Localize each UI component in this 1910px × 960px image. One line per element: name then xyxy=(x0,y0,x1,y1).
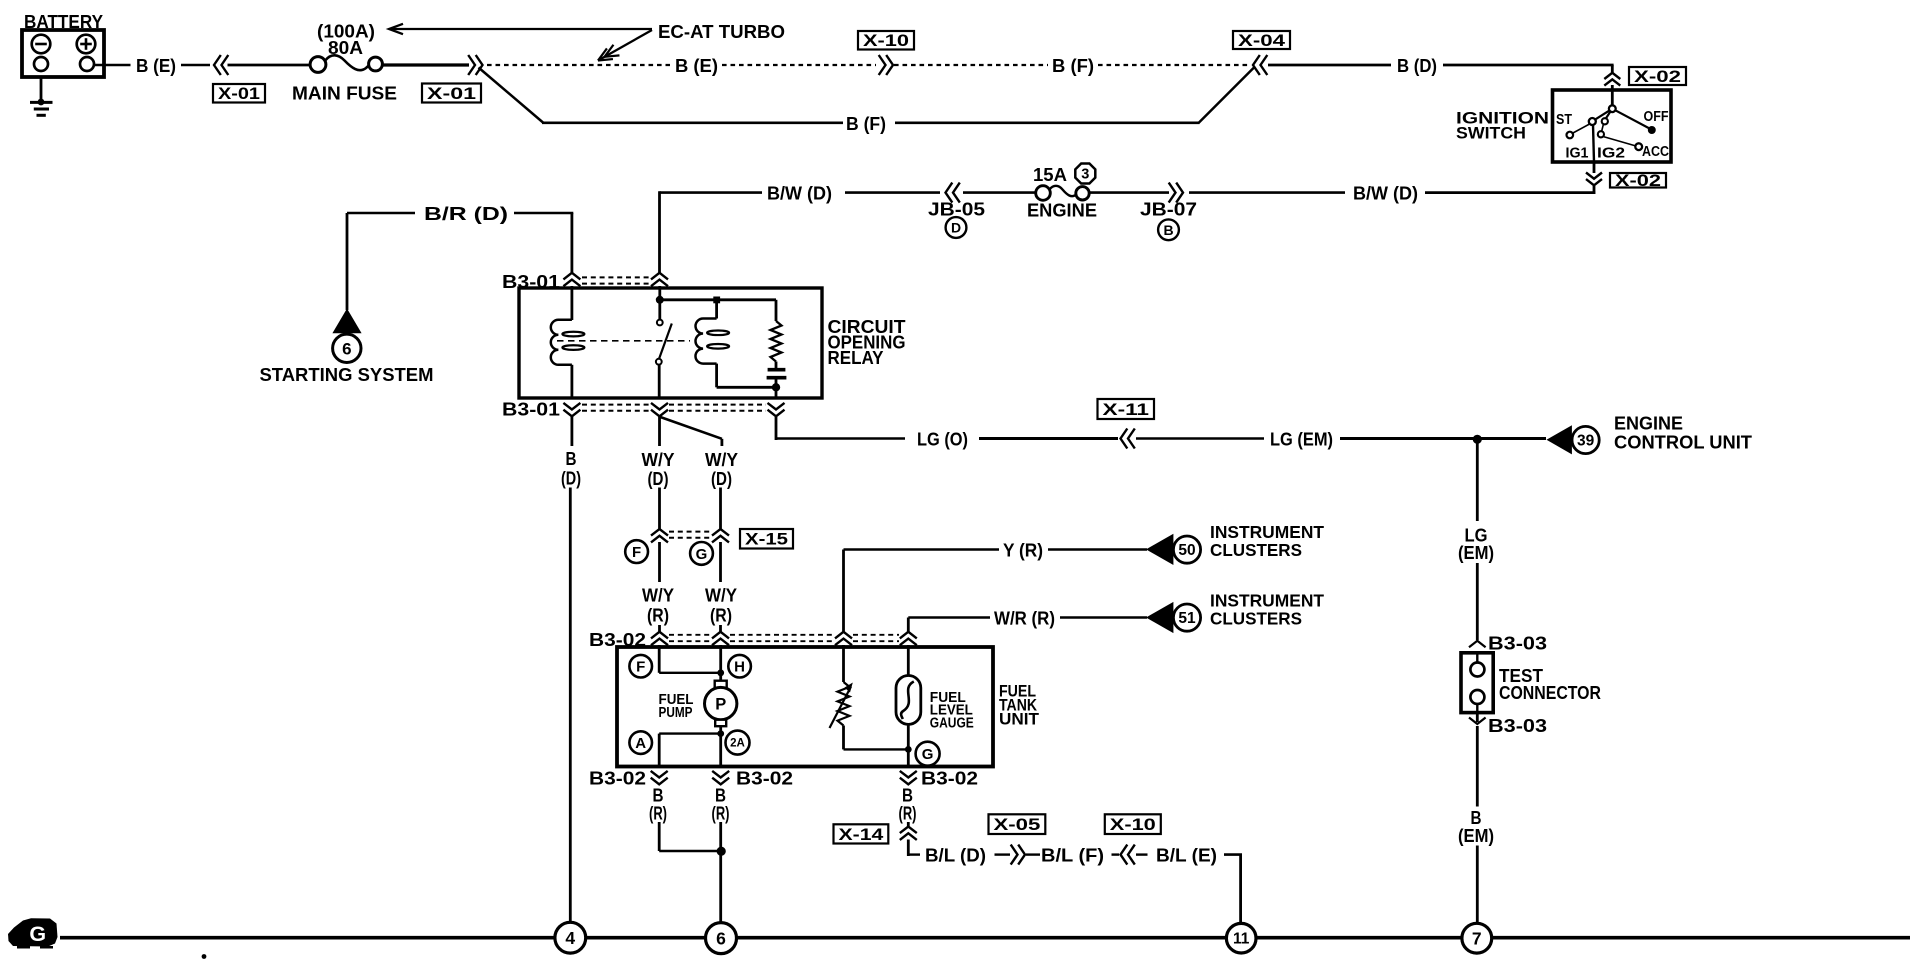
svg-text:IG1: IG1 xyxy=(1566,146,1589,162)
svg-text:X-11: X-11 xyxy=(1103,401,1150,419)
ground circle 6 xyxy=(706,923,737,954)
svg-text:W/Y: W/Y xyxy=(705,450,738,470)
test connector xyxy=(1461,653,1493,713)
svg-text:B/W (D): B/W (D) xyxy=(767,183,832,204)
svg-text:B: B xyxy=(902,786,913,806)
dashed wire B (F) xyxy=(894,55,1250,76)
dashed wire B (E) after X-01 xyxy=(487,55,876,76)
svg-text:6: 6 xyxy=(342,339,351,358)
wire W/Y (R) left xyxy=(642,542,674,633)
wire B (D) to ignition switch xyxy=(1268,55,1614,76)
svg-text:ENGINE: ENGINE xyxy=(1614,413,1683,434)
wire B/L (D) xyxy=(908,845,986,866)
junction JB-07 chevrons xyxy=(1176,183,1183,203)
svg-text:B/L (F): B/L (F) xyxy=(1041,845,1104,866)
svg-text:MAIN FUSE: MAIN FUSE xyxy=(292,83,397,104)
svg-text:EC-AT TURBO: EC-AT TURBO xyxy=(658,21,785,42)
svg-text:LG (EM): LG (EM) xyxy=(1270,429,1333,450)
svg-text:(R): (R) xyxy=(647,606,669,626)
svg-text:PUMP: PUMP xyxy=(659,705,693,721)
junction dot B (R) xyxy=(717,847,726,856)
pin H of fuel pump (circled) xyxy=(728,655,751,678)
svg-text:2A: 2A xyxy=(730,738,745,750)
wire B (E) battery to X-01 xyxy=(94,55,210,76)
ground circle 4 xyxy=(555,922,586,953)
svg-text:D: D xyxy=(951,219,961,235)
wire B (D) relay to ground circle 4 xyxy=(561,417,581,924)
svg-text:W/R (R): W/R (R) xyxy=(994,608,1055,629)
svg-text:B3-02: B3-02 xyxy=(921,768,978,789)
svg-text:11: 11 xyxy=(1233,931,1250,948)
arrow 50 instrument clusters xyxy=(1146,534,1173,565)
wire pump bottom to pin A xyxy=(659,734,721,768)
svg-text:W/Y: W/Y xyxy=(705,586,737,606)
svg-text:OFF: OFF xyxy=(1644,109,1669,125)
junction dot at pin G xyxy=(905,746,912,753)
label TEST CONNECTOR xyxy=(1499,666,1601,703)
svg-text:(EM): (EM) xyxy=(1458,825,1494,846)
relay internal top wire xyxy=(660,286,776,320)
pin F (circled) xyxy=(625,540,648,563)
svg-text:STARTING SYSTEM: STARTING SYSTEM xyxy=(260,364,434,385)
main fuse 80A xyxy=(310,55,382,72)
pin A of fuel pump (circled) xyxy=(629,731,652,754)
svg-text:Y (R): Y (R) xyxy=(1003,540,1043,561)
wire pin F to pump top xyxy=(659,645,721,673)
connector B3-03 (top) chevron xyxy=(1469,641,1486,648)
junction JB-05 chevrons xyxy=(946,183,953,203)
svg-text:LG (O): LG (O) xyxy=(917,429,968,450)
connector X-01 label box (right) xyxy=(422,84,481,103)
svg-text:B (E): B (E) xyxy=(675,55,718,76)
junction dot LG (EM) xyxy=(1473,435,1482,444)
svg-text:CLUSTERS: CLUSTERS xyxy=(1210,609,1302,629)
svg-text:BATTERY: BATTERY xyxy=(24,11,104,32)
svg-text:X-10: X-10 xyxy=(1110,816,1156,834)
callout arrow to dashed B (E) wire xyxy=(598,30,652,61)
svg-text:B/L (D): B/L (D) xyxy=(925,845,986,866)
arrow 51 instrument clusters xyxy=(1146,602,1173,633)
label ENGINE CONTROL UNIT xyxy=(1614,413,1753,453)
svg-text:F: F xyxy=(636,659,645,676)
wire B (R) right / B/L row xyxy=(899,786,917,827)
pin G (circled) xyxy=(690,542,713,565)
connector X-15 chevrons xyxy=(651,529,729,542)
wire B/R (D) to starting system xyxy=(347,203,573,310)
relay resistor xyxy=(767,300,787,386)
svg-text:7: 7 xyxy=(1472,928,1482,948)
svg-text:X-01: X-01 xyxy=(218,85,260,103)
svg-text:(R): (R) xyxy=(649,804,667,824)
svg-text:80A: 80A xyxy=(328,37,363,58)
junction dot resistor/coil2 bottom xyxy=(772,383,780,391)
svg-text:B: B xyxy=(715,786,726,806)
svg-text:P: P xyxy=(715,696,726,714)
pin D of JB-05 (circled) xyxy=(946,217,967,238)
ground circle 7 xyxy=(1462,923,1492,953)
label CIRCUIT OPENING RELAY xyxy=(828,317,906,368)
wire W/Y (D) relay switch down xyxy=(642,417,675,529)
connector X-05 arrow xyxy=(995,845,1041,865)
circled 51 xyxy=(1173,604,1200,631)
svg-text:X-05: X-05 xyxy=(994,816,1041,834)
svg-text:B: B xyxy=(1163,222,1173,238)
relay coil 2 xyxy=(696,303,777,387)
callout arrow to (100A) for EC-AT TURBO xyxy=(389,24,652,34)
circled 39 xyxy=(1572,426,1599,453)
junction square at relay coil 2 feed xyxy=(713,297,720,304)
wire into ignition switch xyxy=(1611,85,1614,92)
connector X-14 label box xyxy=(834,824,889,843)
connector B3-02 (top) chevrons xyxy=(651,632,917,645)
svg-text:JB-07: JB-07 xyxy=(1140,199,1197,220)
label FUEL LEVEL GAUGE xyxy=(930,690,974,732)
connector X-11 chevrons xyxy=(1121,429,1128,449)
svg-text:B/L (E): B/L (E) xyxy=(1156,845,1217,866)
pin B of JB-07 (circled) xyxy=(1158,219,1179,240)
junction dot pump top xyxy=(717,669,724,676)
connector X-02 label box (bottom) xyxy=(1610,173,1666,188)
connector X-05 label box xyxy=(989,814,1046,834)
svg-text:ACC: ACC xyxy=(1642,144,1669,160)
connector X-02 chevrons (bottom) xyxy=(1586,162,1602,194)
svg-text:G: G xyxy=(922,746,934,763)
pin G of fuel gauge (circled) xyxy=(916,742,940,766)
svg-text:B (D): B (D) xyxy=(1397,55,1437,76)
svg-text:B3-02: B3-02 xyxy=(736,768,793,789)
circled 6 starting system xyxy=(333,334,361,362)
svg-text:CONNECTOR: CONNECTOR xyxy=(1499,683,1601,703)
connector X-01 label box (left) xyxy=(213,84,265,103)
wire B/W (D) JB-05 to circuit opening relay xyxy=(660,183,941,274)
relay switch contacts xyxy=(656,320,672,399)
wire LG (EM) down from junction xyxy=(1458,441,1494,640)
svg-text:50: 50 xyxy=(1178,542,1195,559)
svg-text:(D): (D) xyxy=(561,469,581,489)
svg-text:GAUGE: GAUGE xyxy=(930,716,974,732)
svg-text:B/R (D): B/R (D) xyxy=(424,203,508,224)
wire LG (O) relay to X-11 xyxy=(776,417,1118,450)
connector X-10 label box (lower) xyxy=(1105,814,1161,834)
svg-text:X-15: X-15 xyxy=(745,531,788,549)
svg-text:(R): (R) xyxy=(899,804,917,824)
ground symbol G (car body) xyxy=(8,918,58,948)
svg-text:ST: ST xyxy=(1556,112,1572,128)
pin F of fuel pump (circled) xyxy=(629,655,652,678)
fuse number 3 (octagon) xyxy=(1075,164,1095,184)
connector B3-03 (bottom) chevron xyxy=(1469,713,1486,724)
svg-text:B: B xyxy=(566,449,577,469)
circuit opening relay box xyxy=(519,288,822,398)
relay mechanical link (dashed) xyxy=(557,340,690,342)
svg-text:INSTRUMENT: INSTRUMENT xyxy=(1210,522,1324,542)
circled 50 xyxy=(1173,536,1200,563)
svg-text:CONTROL UNIT: CONTROL UNIT xyxy=(1614,432,1753,453)
svg-text:B3-02: B3-02 xyxy=(589,768,646,789)
wire W/Y (D) branch diagonal xyxy=(660,417,738,529)
connector X-02 chevrons (top) xyxy=(1604,73,1620,79)
connector B3-02 (bottom) labels and chevrons xyxy=(589,768,978,789)
svg-text:B (E): B (E) xyxy=(136,55,176,76)
connector B3-01 (top) chevrons xyxy=(563,273,668,286)
svg-text:39: 39 xyxy=(1577,433,1595,450)
ignition switch xyxy=(1456,90,1671,162)
fuel pump motor xyxy=(705,673,737,734)
connector X-01 chevrons (left) xyxy=(214,55,221,75)
svg-text:SWITCH: SWITCH xyxy=(1456,124,1526,143)
connector X-01 chevrons (right) xyxy=(476,55,483,75)
svg-text:X-01: X-01 xyxy=(427,85,476,103)
svg-text:B3-03: B3-03 xyxy=(1488,633,1547,654)
connector X-04 chevrons xyxy=(1253,55,1260,75)
connector X-04 label box xyxy=(1233,31,1290,49)
wire engine fuse to JB-05 xyxy=(963,191,1037,194)
svg-text:6: 6 xyxy=(716,928,726,948)
svg-text:15A: 15A xyxy=(1033,164,1067,185)
wire B (F) lower run xyxy=(542,68,1254,135)
svg-text:B (F): B (F) xyxy=(846,113,886,134)
connector X-10 chevrons xyxy=(886,55,893,75)
svg-text:ENGINE: ENGINE xyxy=(1027,200,1097,221)
svg-text:G: G xyxy=(29,922,46,946)
ground circle 11 xyxy=(1226,923,1256,953)
svg-text:UNIT: UNIT xyxy=(999,710,1040,729)
svg-text:B3-03: B3-03 xyxy=(1488,715,1547,736)
connector X-10 label box xyxy=(858,31,914,50)
fuel level gauge rheostat xyxy=(830,645,909,749)
svg-text:B/W (D): B/W (D) xyxy=(1353,183,1418,204)
fuel level gauge element xyxy=(896,645,921,768)
ground below battery xyxy=(30,77,53,115)
ground bus wire xyxy=(60,936,1910,940)
junction dot pump bottom xyxy=(717,730,724,737)
wire main fuse to X-01 right xyxy=(382,63,469,66)
svg-text:A: A xyxy=(635,735,646,752)
svg-text:B: B xyxy=(653,786,664,806)
svg-text:B (F): B (F) xyxy=(1052,55,1094,76)
pin 2A of fuel pump (circled) xyxy=(726,731,750,755)
wire B/L (E) to ground circle 11 xyxy=(1156,845,1242,925)
wire resistor junction down xyxy=(775,389,778,399)
svg-text:4: 4 xyxy=(565,928,575,948)
svg-text:F: F xyxy=(632,544,641,561)
wire B (F) from X-01 down-slope xyxy=(479,68,544,123)
label FUEL TANK UNIT xyxy=(999,682,1040,729)
connector B3-01 (bottom) chevrons xyxy=(563,403,784,416)
stray mark xyxy=(202,954,207,959)
fuel tank unit box xyxy=(617,647,993,767)
connector X-11 label box xyxy=(1098,399,1155,419)
connector X-10 arrow (lower) xyxy=(1112,845,1148,865)
svg-text:CLUSTERS: CLUSTERS xyxy=(1210,540,1302,560)
svg-text:(D): (D) xyxy=(648,469,669,489)
svg-text:51: 51 xyxy=(1178,610,1196,627)
wire Y (R) to instrument cluster 50 xyxy=(844,540,1148,633)
svg-text:(R): (R) xyxy=(712,804,730,824)
wire X-01 to main fuse xyxy=(228,64,312,67)
svg-text:(R): (R) xyxy=(710,606,732,626)
wire B (EM) to ground circle 7 xyxy=(1458,726,1494,924)
svg-text:G: G xyxy=(696,546,708,563)
svg-text:(EM): (EM) xyxy=(1458,542,1494,563)
svg-text:X-02: X-02 xyxy=(1634,68,1681,86)
svg-text:W/Y: W/Y xyxy=(642,586,674,606)
connector X-15 label box xyxy=(740,529,793,549)
svg-text:X-14: X-14 xyxy=(839,826,885,844)
wire B/W (D) ignition switch to engine fuse xyxy=(1189,183,1595,204)
svg-text:INSTRUMENT: INSTRUMENT xyxy=(1210,591,1324,611)
label FUEL PUMP xyxy=(659,692,694,721)
label INSTRUMENT CLUSTERS (50) xyxy=(1210,522,1324,560)
wire W/R (R) to instrument cluster 51 xyxy=(908,608,1147,633)
connector X-02 label box (top) xyxy=(1629,67,1686,85)
svg-text:IG2: IG2 xyxy=(1597,146,1625,162)
svg-text:H: H xyxy=(734,659,745,676)
svg-text:3: 3 xyxy=(1081,167,1089,183)
svg-text:X-02: X-02 xyxy=(1615,172,1661,190)
svg-text:X-10: X-10 xyxy=(863,32,909,50)
wire B (R) left xyxy=(649,786,721,852)
wire JB-07 to engine fuse xyxy=(1090,191,1169,194)
svg-text:X-04: X-04 xyxy=(1238,32,1286,50)
junction dot at relay switch feed xyxy=(656,296,664,304)
svg-text:B3-01: B3-01 xyxy=(502,399,560,420)
battery xyxy=(22,11,104,77)
label INSTRUMENT CLUSTERS (51) xyxy=(1210,591,1324,629)
svg-text:(D): (D) xyxy=(711,469,732,489)
fuse ENGINE 15A xyxy=(1036,186,1090,201)
wire W/Y (R) right xyxy=(705,542,737,633)
arrow 39 engine control unit xyxy=(1547,425,1572,454)
wire B (R) middle xyxy=(712,786,730,924)
arrow to starting system xyxy=(332,309,361,334)
svg-text:W/Y: W/Y xyxy=(642,450,675,470)
wire LG (EM) to engine control unit xyxy=(1136,429,1546,450)
connector X-14 chevrons xyxy=(900,827,917,857)
svg-text:RELAY: RELAY xyxy=(828,348,884,368)
relay coil 1 xyxy=(551,286,585,399)
